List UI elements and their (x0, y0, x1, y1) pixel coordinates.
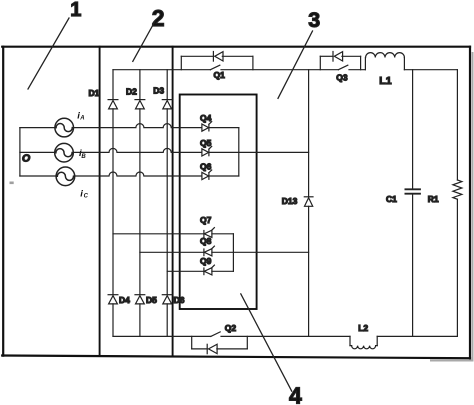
wire rectifier top bus (113, 69, 210, 71)
diode D3 (162, 70, 172, 295)
thyristor Q6 (202, 170, 239, 180)
diode D4 (108, 295, 118, 337)
svg-text:D2: D2 (126, 87, 137, 97)
svg-text:D3: D3 (153, 85, 164, 95)
svg-text:L1: L1 (379, 75, 391, 87)
svg-text:D1: D1 (89, 88, 100, 98)
diode D1 (108, 70, 118, 295)
svg-text:D6: D6 (174, 295, 185, 305)
svg-text:L2: L2 (358, 323, 368, 333)
svg-text:1: 1 (70, 0, 81, 21)
diode D13 (304, 197, 313, 337)
svg-text:C1: C1 (386, 194, 397, 204)
thyristor Q7 (204, 228, 234, 238)
wire Q7 row (113, 233, 204, 235)
svg-text:4: 4 (289, 382, 302, 405)
svg-text:Q3: Q3 (336, 72, 348, 82)
node O vertical neutral wire (19, 128, 21, 176)
svg-text:Q9: Q9 (200, 256, 212, 266)
wire phase A row (73, 124, 202, 128)
wire phase B row (72, 148, 202, 152)
svg-text:Q7: Q7 (200, 215, 212, 225)
svg-text:D5: D5 (146, 295, 157, 305)
svg-text:2: 2 (152, 5, 165, 31)
wire bottom bus left (113, 335, 211, 337)
wire Q9 row (167, 270, 204, 272)
thyristor Q4 (202, 122, 239, 132)
divider region1/region2 (99, 47, 101, 356)
inductor L2 (350, 336, 457, 348)
label iB (79, 148, 86, 160)
converter box 4 (180, 95, 257, 310)
ac source iC (20, 167, 75, 186)
switch Q1 with antiparallel diode (181, 52, 338, 70)
divider region2/region3 (172, 47, 174, 357)
svg-text:O: O (22, 152, 30, 164)
wire D13 branch vertical (308, 70, 310, 197)
leader line 4 (241, 294, 292, 391)
diode D6 (162, 295, 172, 337)
ac source iB (20, 143, 73, 162)
outer enclosure box (2, 47, 470, 359)
capacitor C1 (405, 70, 420, 337)
svg-text:C: C (84, 193, 89, 199)
switch Q2 with antiparallel diode (192, 332, 350, 354)
outer enclosure shadow (430, 52, 474, 362)
wire Q4-Q6 output vertical (238, 128, 240, 176)
diode D2 (135, 70, 145, 295)
wire Q7-Q9 output vertical (232, 234, 234, 271)
inductor L1 (365, 53, 457, 70)
svg-text:D4: D4 (119, 295, 130, 305)
thyristor Q9 (204, 265, 234, 275)
diode D5 (135, 295, 145, 337)
svg-text:A: A (79, 115, 84, 121)
svg-text:Q1: Q1 (214, 70, 226, 80)
leader line 2 (133, 22, 155, 62)
svg-text:Q6: Q6 (200, 162, 212, 172)
ac source iA (20, 118, 74, 137)
svg-text:Q5: Q5 (200, 138, 212, 148)
wire phase C row (74, 172, 202, 176)
label iA (77, 111, 84, 122)
scan artifact tick (10, 182, 14, 185)
thyristor Q8 (204, 246, 309, 256)
svg-text:3: 3 (308, 8, 320, 32)
svg-text:B: B (81, 154, 86, 160)
svg-text:Q8: Q8 (200, 236, 212, 246)
thyristor Q5 (202, 146, 309, 156)
wire Q8 row (140, 251, 204, 253)
svg-text:Q2: Q2 (225, 323, 237, 333)
resistor R1 (453, 70, 462, 337)
label iC (80, 189, 88, 200)
svg-text:R1: R1 (428, 194, 439, 204)
leader line 1 (28, 18, 69, 89)
svg-text:Q4: Q4 (200, 113, 212, 123)
switch Q3 with antiparallel diode (320, 52, 365, 70)
leader line 3 (278, 31, 313, 98)
svg-text:D13: D13 (282, 196, 298, 206)
